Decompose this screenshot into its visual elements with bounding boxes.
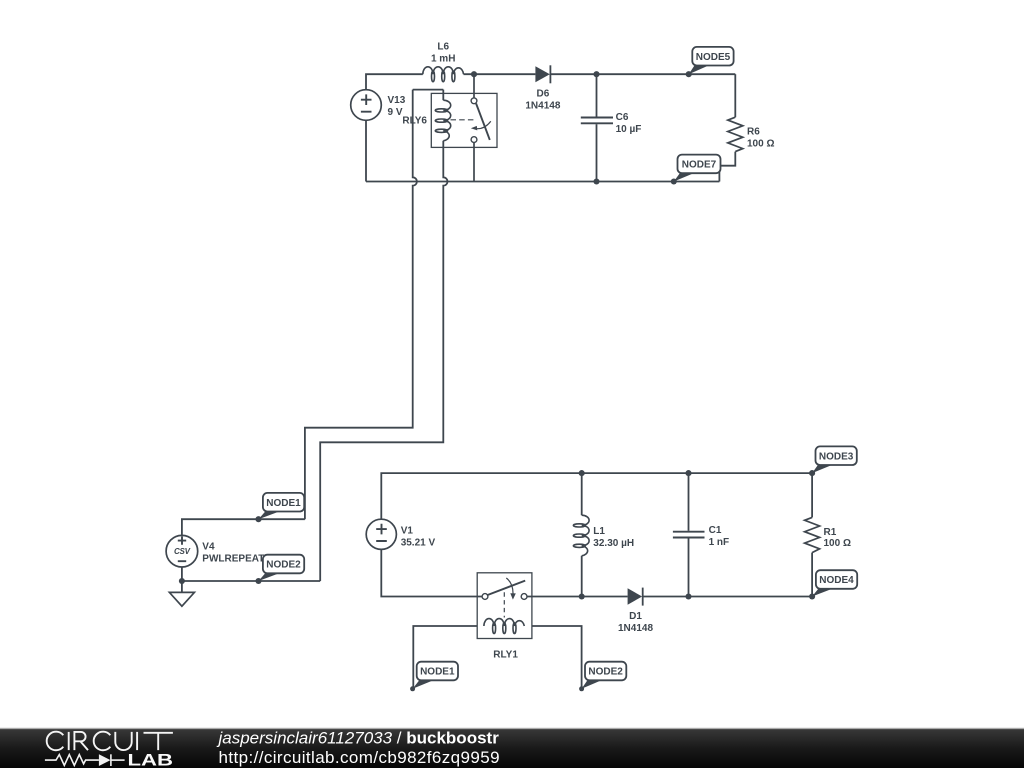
svg-text:NODE3: NODE3 bbox=[819, 451, 854, 462]
svg-text:NODE4: NODE4 bbox=[819, 575, 854, 586]
svg-text:PWLREPEAT: PWLREPEAT bbox=[202, 553, 264, 564]
svg-text:C6: C6 bbox=[616, 112, 629, 123]
svg-text:L1: L1 bbox=[593, 526, 605, 537]
svg-text:32.30 µH: 32.30 µH bbox=[593, 538, 634, 549]
svg-text:jaspersinclair61127033 / buckb: jaspersinclair61127033 / buckboostr bbox=[217, 729, 500, 748]
svg-text:L6: L6 bbox=[437, 42, 449, 53]
svg-text:LAB: LAB bbox=[128, 752, 174, 768]
svg-text:35.21 V: 35.21 V bbox=[401, 538, 436, 549]
svg-text:1N4148: 1N4148 bbox=[525, 100, 560, 111]
svg-text:RLY6: RLY6 bbox=[402, 116, 427, 127]
svg-text:RLY1: RLY1 bbox=[493, 649, 518, 660]
svg-text:100 Ω: 100 Ω bbox=[824, 538, 851, 549]
svg-text:NODE1: NODE1 bbox=[420, 667, 455, 678]
svg-text:NODE7: NODE7 bbox=[682, 160, 717, 171]
svg-text:NODE2: NODE2 bbox=[588, 667, 623, 678]
svg-text:100 Ω: 100 Ω bbox=[747, 138, 774, 149]
svg-text:1 mH: 1 mH bbox=[431, 54, 455, 65]
svg-text:1 nF: 1 nF bbox=[709, 537, 730, 548]
svg-text:NODE5: NODE5 bbox=[696, 52, 731, 63]
svg-text:NODE1: NODE1 bbox=[266, 498, 301, 509]
svg-text:CSV: CSV bbox=[174, 547, 191, 556]
svg-text:10 µF: 10 µF bbox=[616, 124, 642, 135]
svg-text:C1: C1 bbox=[709, 525, 722, 536]
svg-text:NODE2: NODE2 bbox=[266, 560, 301, 571]
svg-text:R1: R1 bbox=[824, 527, 837, 538]
svg-text:D1: D1 bbox=[629, 611, 642, 622]
svg-text:V13: V13 bbox=[388, 95, 406, 106]
svg-text:V1: V1 bbox=[401, 526, 414, 537]
svg-text:1N4148: 1N4148 bbox=[618, 623, 653, 634]
svg-text:9 V: 9 V bbox=[388, 107, 403, 118]
svg-text:V4: V4 bbox=[202, 541, 215, 552]
svg-text:http://circuitlab.com/cb982f6z: http://circuitlab.com/cb982f6zq9959 bbox=[219, 748, 500, 767]
svg-text:D6: D6 bbox=[537, 88, 550, 99]
svg-text:R6: R6 bbox=[747, 126, 760, 137]
